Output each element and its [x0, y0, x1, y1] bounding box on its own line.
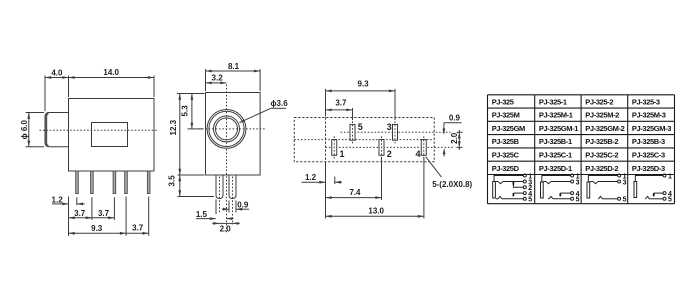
svg-text:PJ-325M-3: PJ-325M-3	[632, 111, 666, 120]
schematic PJ-325-2 (contacts 1,3,5)	[587, 173, 627, 203]
view 1: centerline	[40, 129, 159, 131]
svg-text:3: 3	[576, 179, 580, 186]
svg-text:PJ-325D-1: PJ-325D-1	[539, 164, 572, 173]
svg-text:PJ-325GM-3: PJ-325GM-3	[632, 124, 671, 133]
dimension 5.3	[188, 128, 204, 130]
dimension 0.9 (view 3)	[444, 122, 462, 124]
svg-text:3.7: 3.7	[335, 99, 347, 108]
svg-text:PJ-325-1: PJ-325-1	[539, 97, 567, 106]
svg-text:13.0: 13.0	[368, 206, 384, 215]
svg-text:2.0: 2.0	[450, 132, 459, 144]
svg-text:3.7: 3.7	[132, 224, 144, 233]
svg-text:PJ-325C-2: PJ-325C-2	[585, 150, 618, 159]
view 2: pin A	[216, 175, 223, 199]
dimension 3.7 first	[91, 197, 93, 220]
svg-text:PJ-325GM-1: PJ-325GM-1	[539, 124, 578, 133]
view 2: front view body	[206, 93, 261, 176]
svg-text:8.1: 8.1	[228, 62, 240, 71]
label 5-(2.0X0.8) with leader	[426, 157, 442, 177]
view 3: top pad row centerline	[341, 131, 451, 133]
svg-text:3.7: 3.7	[98, 209, 110, 218]
svg-text:14.0: 14.0	[103, 68, 119, 77]
view 3: dashed divider	[325, 118, 327, 162]
view 2: bezel circle outer	[207, 109, 246, 148]
svg-text:PJ-325C-1: PJ-325C-1	[539, 150, 572, 159]
dimension 0.9 (view 2)	[228, 201, 230, 213]
svg-text:PJ-325-3: PJ-325-3	[632, 97, 660, 106]
svg-text:5.3: 5.3	[180, 105, 189, 117]
view 2: bezel circle 2	[209, 111, 244, 146]
pad 5	[350, 124, 355, 140]
svg-text:PJ-325B-3: PJ-325B-3	[632, 137, 665, 146]
dimension 2.0 (view 3)	[457, 131, 463, 133]
svg-text:1: 1	[340, 149, 345, 159]
svg-text:2: 2	[387, 149, 392, 159]
svg-text:3: 3	[387, 122, 392, 132]
svg-text:3.5: 3.5	[167, 175, 176, 187]
svg-text:12.3: 12.3	[169, 119, 178, 135]
svg-text:PJ-325D: PJ-325D	[492, 164, 520, 173]
svg-text:PJ-325: PJ-325	[492, 97, 514, 106]
dimension 3.7 second	[113, 197, 115, 220]
dimension 3.5	[178, 196, 215, 198]
view 2: pin B centerline	[232, 177, 234, 225]
svg-text:5: 5	[528, 197, 532, 204]
view 2: ring circle	[214, 116, 240, 142]
svg-text:PJ-325-2: PJ-325-2	[585, 97, 613, 106]
svg-text:4.0: 4.0	[51, 68, 63, 77]
svg-text:0.9: 0.9	[237, 201, 249, 210]
svg-text:5-(2.0X0.8): 5-(2.0X0.8)	[432, 180, 472, 189]
dimension 1.5	[215, 200, 217, 215]
svg-text:3.2: 3.2	[212, 74, 224, 83]
view 1: inner window	[92, 123, 128, 147]
dimension 9.3 (view 3)	[325, 89, 327, 117]
dimension 3.7 third	[148, 197, 150, 236]
dimension 2.0 (view 2)	[220, 222, 233, 224]
svg-text:1.2: 1.2	[305, 173, 317, 182]
pad 1	[332, 140, 337, 156]
svg-text:PJ-325C-3: PJ-325C-3	[632, 150, 665, 159]
view 3: body centerline	[294, 139, 434, 141]
svg-text:PJ-325C: PJ-325C	[492, 150, 520, 159]
view 2: hole circle dia 3.6	[216, 118, 238, 140]
svg-text:5: 5	[623, 197, 627, 204]
svg-text:1.5: 1.5	[196, 210, 208, 219]
dimension 3.7 (view 3)	[352, 108, 354, 120]
svg-text:3.7: 3.7	[74, 209, 86, 218]
dimension 12.3	[177, 93, 205, 95]
svg-text:PJ-325D-2: PJ-325D-2	[585, 164, 618, 173]
table grid	[488, 95, 675, 204]
pad 4	[421, 140, 426, 156]
svg-text:PJ-325B: PJ-325B	[492, 137, 520, 146]
view 1: threaded bushing	[45, 113, 69, 147]
view 3: dashed body outline	[294, 118, 434, 162]
view 1: bushing front edge	[46, 113, 48, 146]
svg-text:1: 1	[668, 173, 672, 180]
dimension 8.1	[205, 69, 207, 91]
svg-text:PJ-325D-3: PJ-325D-3	[632, 164, 665, 173]
view 3: bottom pad row centerline	[326, 146, 454, 148]
dimension 7.4	[381, 158, 383, 201]
view 2: pin B	[229, 175, 236, 199]
svg-text:ϕ 6.0: ϕ 6.0	[20, 119, 29, 139]
dimension 3.2	[206, 82, 227, 84]
svg-text:9.3: 9.3	[357, 80, 369, 89]
svg-text:0.9: 0.9	[449, 113, 461, 122]
svg-text:PJ-325M: PJ-325M	[492, 111, 520, 120]
dimension dia 6.0	[26, 112, 45, 114]
svg-text:PJ-325GM: PJ-325GM	[492, 124, 525, 133]
svg-text:1.2: 1.2	[52, 195, 64, 204]
dimension 4.0	[44, 76, 46, 112]
svg-text:5: 5	[668, 197, 672, 204]
dimension 1.2 (view 1)	[68, 197, 70, 237]
svg-text:PJ-325B-1: PJ-325B-1	[539, 137, 572, 146]
arrow up to bottom row line	[443, 150, 445, 157]
view 2: crosshair vertical	[226, 85, 228, 233]
pin1 extension mark	[76, 197, 78, 205]
schematic PJ-325-1 (contacts 1,3,4,5)	[541, 173, 580, 203]
svg-text:PJ-325M-1: PJ-325M-1	[539, 111, 573, 120]
svg-text:PJ-325GM-2: PJ-325GM-2	[585, 124, 624, 133]
svg-text:PJ-325B-2: PJ-325B-2	[585, 137, 618, 146]
pad 3	[393, 124, 398, 140]
dimension 9.3 (view 1)	[125, 197, 127, 236]
svg-text:2.0: 2.0	[220, 225, 232, 234]
dimension 13.0	[423, 158, 425, 219]
pad 2	[379, 140, 384, 156]
view 2: crosshair horizontal	[199, 128, 267, 130]
view 1: side view body	[69, 99, 155, 172]
svg-text:5: 5	[576, 197, 580, 204]
svg-text:7.4: 7.4	[349, 188, 361, 197]
view 2: pin A centerline	[219, 177, 221, 214]
svg-text:5: 5	[358, 122, 363, 132]
svg-text:4: 4	[415, 149, 420, 159]
view 1: pins	[76, 171, 79, 194]
svg-text:3: 3	[623, 179, 627, 186]
dimension 14.0	[153, 76, 155, 98]
svg-text:PJ-325M-2: PJ-325M-2	[585, 111, 619, 120]
schematic PJ-325-3 (contacts 1,4,5)	[634, 173, 672, 203]
svg-text:9.3: 9.3	[91, 224, 103, 233]
schematic PJ-325 (5 contacts 1,3,2,4,5)	[493, 173, 533, 203]
dimension 1.2 (view 3)	[325, 162, 327, 219]
svg-text:ϕ3.6: ϕ3.6	[271, 99, 289, 108]
